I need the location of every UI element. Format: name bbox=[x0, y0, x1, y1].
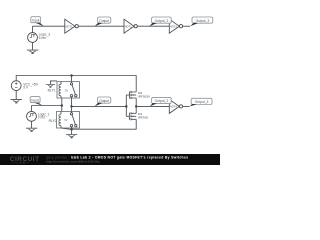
transistor M2 (PMOS IRF9530) bbox=[126, 91, 150, 99]
svg-text:0 ms: 0 ms bbox=[38, 116, 45, 120]
svg-text:Output_2: Output_2 bbox=[155, 19, 169, 23]
svg-text:Output_2: Output_2 bbox=[155, 99, 169, 103]
voltage source V2 Logic_1 bbox=[27, 111, 50, 121]
wire: drain bus M2-M1 with output junction bbox=[135, 98, 137, 113]
voltage source V1 VCC_+5V bbox=[11, 81, 38, 91]
svg-text:NOT1: NOT1 bbox=[66, 25, 73, 28]
inverter NOT3 bbox=[169, 19, 182, 33]
svg-text:5 ms: 5 ms bbox=[39, 36, 46, 40]
inverter NOT4 bbox=[169, 99, 182, 113]
node flag Output (bottom) bbox=[95, 97, 111, 106]
wire: relay2 switch pin down to ground node bbox=[71, 128, 73, 129]
transistor M1 (NMOS IRF530) bbox=[126, 112, 148, 120]
svg-text:Output_3: Output_3 bbox=[196, 19, 210, 23]
wire: NOT3 out stub bbox=[183, 25, 191, 27]
svg-text:Output: Output bbox=[99, 19, 109, 23]
node flag Input (bottom) bbox=[30, 97, 42, 106]
ground (VCC) bbox=[11, 100, 22, 103]
wire: input corner to inverter NOT1 bbox=[33, 25, 65, 27]
svg-text:5V: 5V bbox=[65, 89, 68, 92]
wire: relay output to MOSFET gates bbox=[72, 105, 127, 107]
junction on rail (relay 1 feed) bbox=[70, 74, 73, 77]
wire: VCC to ground bbox=[15, 91, 17, 100]
svg-text:5V: 5V bbox=[65, 119, 68, 122]
node flag Output (top) bbox=[95, 17, 111, 26]
svg-text:IRF9530: IRF9530 bbox=[138, 94, 150, 98]
wire: MOSFET output to inverter NOT4 bbox=[136, 105, 169, 107]
node flag Output_2 (top) bbox=[149, 17, 171, 26]
junction gate bus bbox=[125, 105, 128, 108]
wire: corner down to Logic_1 bbox=[31, 106, 33, 112]
node flag Output_3 (bottom) bbox=[189, 98, 212, 106]
svg-text:NOT3: NOT3 bbox=[170, 25, 177, 28]
wire: rail down into relay RLY1 switch bbox=[71, 76, 73, 82]
node flag Input (top) bbox=[31, 17, 44, 27]
wire: NOT4 out stub bbox=[183, 105, 190, 107]
junction input net bbox=[61, 104, 64, 107]
svg-text:──▪ L A B──: ──▪ L A B── bbox=[9, 161, 29, 165]
wire: NOT2 out to NOT3 in bbox=[137, 25, 169, 27]
svg-text:http://circuitlab.com/c68b4c2f: http://circuitlab.com/c68b4c2f2b46p bbox=[46, 160, 100, 164]
svg-text:IRF530: IRF530 bbox=[138, 116, 148, 120]
ground (Logic_3) bbox=[27, 50, 38, 53]
relay RLY1 bbox=[57, 82, 80, 98]
wire: NOT1 out to NOT2 in bbox=[78, 25, 124, 27]
wire: Logic_1 to ground bbox=[31, 121, 33, 128]
ground (output stage) bbox=[70, 128, 73, 131]
wire: input corner to coil junction bbox=[32, 105, 62, 107]
svg-text:NOT2: NOT2 bbox=[125, 25, 132, 28]
svg-text:RLY1: RLY1 bbox=[48, 89, 56, 93]
wire: output net between relay switches bbox=[71, 98, 73, 112]
svg-text:RLY2: RLY2 bbox=[49, 119, 57, 123]
wire: M1 source down and left to ground node bbox=[72, 119, 137, 129]
wire: vertical from corner down to Logic_3 source bbox=[32, 26, 34, 32]
wire: source to ground bbox=[32, 42, 34, 50]
svg-text:Output: Output bbox=[99, 99, 109, 103]
ground (Logic_1) bbox=[26, 128, 37, 131]
wire: VCC top rail bbox=[16, 76, 136, 92]
relay RLY1 coil reference ground bbox=[51, 81, 58, 85]
relay RLY2 bbox=[57, 112, 80, 129]
wire: relay2 coil pin diagonal to ground node bbox=[61, 128, 72, 129]
voltage source V3 Logic_3 bbox=[28, 33, 51, 43]
svg-text:Input: Input bbox=[32, 19, 39, 23]
svg-text:NOT4: NOT4 bbox=[170, 106, 177, 109]
inverter NOT2 bbox=[124, 19, 137, 33]
node flag Output_2 (bottom) bbox=[150, 97, 171, 106]
node flag Output_3 (top) bbox=[190, 17, 213, 26]
svg-text:5 V: 5 V bbox=[23, 86, 29, 90]
wire: gate bus vertical bbox=[125, 95, 127, 116]
wire: input net between relay coils bbox=[61, 98, 63, 112]
junction output net bbox=[70, 105, 73, 108]
svg-text:Output_3: Output_3 bbox=[195, 100, 209, 104]
inverter NOT1 bbox=[65, 19, 78, 33]
svg-text:Input: Input bbox=[31, 99, 38, 103]
